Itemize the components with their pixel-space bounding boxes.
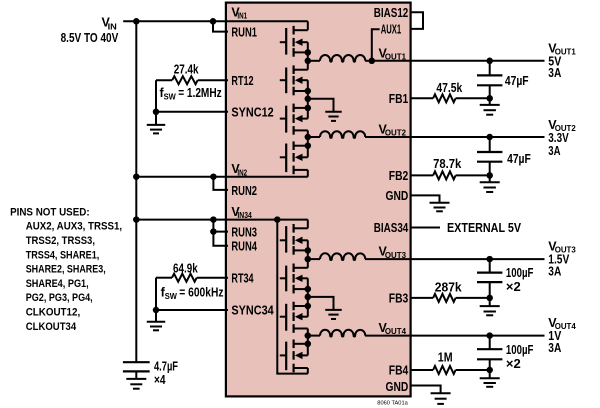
node FB2 gnd junction xyxy=(486,172,493,179)
label VOUT4 output xyxy=(548,316,576,331)
svg-text:= 600kHz: = 600kHz xyxy=(179,286,223,300)
wire FB2 xyxy=(410,174,489,176)
svg-text:RUN4: RUN4 xyxy=(231,240,257,254)
wire VIN2 internal xyxy=(228,176,308,178)
svg-text:AUX2, AUX3, TRSS1,: AUX2, AUX3, TRSS1, xyxy=(26,221,122,233)
wire VIN34 internal xyxy=(228,219,308,221)
wire VOUT1 pin xyxy=(372,60,411,62)
wire SW4 rail xyxy=(307,329,309,356)
resistor R RT12 27.4k leads xyxy=(156,79,228,81)
pin RUN2 label xyxy=(231,184,257,198)
svg-text:SHARE4, PG1,: SHARE4, PG1, xyxy=(26,278,89,290)
label 100uF ch4 xyxy=(506,343,534,357)
capacitor C1 47uF xyxy=(477,61,502,99)
svg-text:RUN2: RUN2 xyxy=(231,184,257,198)
wire GND12 xyxy=(410,195,439,202)
label x2 ch4 xyxy=(506,357,521,371)
wire VOUT4 output xyxy=(410,335,544,337)
pin RUN3 label xyxy=(231,226,257,240)
wire VIN vertical rail xyxy=(135,21,137,362)
wire FB3 xyxy=(410,297,489,299)
node VOUT1-AUX1 junction xyxy=(369,58,376,65)
label VOUT2 output xyxy=(548,118,576,133)
pin SYNC12 label xyxy=(231,105,273,119)
node RUN2 feed junction xyxy=(210,173,217,180)
svg-text:CLKOUT34: CLKOUT34 xyxy=(26,321,77,333)
transistor Q8 ch4 top switch xyxy=(280,340,308,373)
label 8060 TA01a xyxy=(377,400,408,406)
label 100uF ch3 xyxy=(506,266,534,280)
svg-text:TRSS2, TRSS3,: TRSS2, TRSS3, xyxy=(26,235,95,247)
node Q8 source junction xyxy=(305,341,312,348)
pin AUX1 label xyxy=(381,22,402,36)
node internal gnd branch 34 xyxy=(305,294,312,301)
inductor L1 xyxy=(308,55,372,62)
node SW2 inductor junction xyxy=(305,134,312,141)
svg-text:PG2, PG3, PG4,: PG2, PG3, PG4, xyxy=(26,292,93,304)
pin GND34 label xyxy=(386,380,409,394)
svg-text:3A: 3A xyxy=(548,66,561,80)
ground input cap xyxy=(126,379,146,389)
ground SYNC12 xyxy=(147,112,166,134)
label VOUT1 output xyxy=(548,41,576,56)
node Q7 source junction xyxy=(305,303,312,310)
wire RUN4 feed xyxy=(213,232,228,246)
wire BIAS34 xyxy=(410,227,440,229)
transistor Q4 ch2 top switch xyxy=(280,141,308,174)
svg-text:8060 TA01a: 8060 TA01a xyxy=(377,400,408,406)
wire SW2 rail xyxy=(307,130,309,157)
pin VOUT3 label xyxy=(379,245,407,260)
resistor R4 1M body xyxy=(433,366,456,374)
ground GND12 xyxy=(430,203,450,212)
capacitor C4 100uF x2 xyxy=(477,336,502,370)
transistor Q3 ch2 bottom switch xyxy=(280,104,308,135)
inductor L2 xyxy=(308,131,411,138)
wire BIAS12 to AUX1 loop xyxy=(410,12,423,29)
node internal gnd branch 12 xyxy=(305,96,312,103)
node VOUT1 cap junction xyxy=(486,58,493,65)
wire VOUT1 output xyxy=(410,60,544,62)
node FB1 gnd junction xyxy=(486,95,493,102)
wire AUX1 riser xyxy=(372,29,380,61)
pin VIN34 label xyxy=(231,205,252,220)
IC module U1 LTM8060 body xyxy=(226,3,411,397)
label 3A ch1 xyxy=(548,66,561,80)
wire FET Q1 drain stub xyxy=(307,21,309,30)
node Q5 source junction xyxy=(305,247,312,254)
svg-text:100µF: 100µF xyxy=(506,343,534,357)
node Q4 source junction xyxy=(305,142,312,149)
wire FB4 xyxy=(410,369,489,371)
svg-text:47.5k: 47.5k xyxy=(436,81,462,95)
pin VOUT2 label xyxy=(379,123,407,138)
capacitor C2 47uF xyxy=(477,137,502,175)
label 3A ch4 xyxy=(548,341,561,355)
label 1V xyxy=(548,329,562,343)
node RUN1 feed junction xyxy=(210,18,217,25)
wire Q8 drain to loop xyxy=(307,368,309,374)
label 47uF ch2 xyxy=(507,152,531,166)
wire GND34 xyxy=(410,386,440,394)
pin FB4 label xyxy=(389,364,409,378)
label 3.3V xyxy=(548,131,569,145)
wire RUN2 feed xyxy=(213,177,228,190)
ground internal 34 xyxy=(308,297,342,319)
pin FB1 label xyxy=(389,92,409,106)
pin BIAS34 label xyxy=(374,221,409,235)
label PINS NOT USED list xyxy=(10,206,122,333)
ground SYNC34 xyxy=(147,310,166,330)
wire gnd rail ch1-ch2 xyxy=(307,80,309,118)
svg-text:IN1: IN1 xyxy=(237,10,247,20)
wire VIN2 feed xyxy=(136,176,228,178)
svg-text:×2: ×2 xyxy=(506,357,521,371)
svg-text:RUN3: RUN3 xyxy=(231,226,257,240)
label x4 xyxy=(154,373,166,387)
pin FB2 label xyxy=(389,169,409,183)
pin VOUT4 label xyxy=(379,321,407,336)
ground VOUT3 cap xyxy=(480,298,500,315)
svg-text:SW: SW xyxy=(165,291,178,301)
svg-text:GND: GND xyxy=(386,189,409,203)
svg-text:8.5V TO 40V: 8.5V TO 40V xyxy=(61,31,119,45)
wire RUN3 feed xyxy=(213,220,228,232)
resistor R1 47.5k body xyxy=(433,94,456,102)
resistor R RT34 64.9k leads xyxy=(156,277,228,279)
transistor Q1 ch1 top switch xyxy=(280,26,308,57)
svg-text:PINS NOT USED:: PINS NOT USED: xyxy=(10,206,90,218)
label fSW = 600kHz xyxy=(161,286,224,302)
svg-text:47µF: 47µF xyxy=(507,152,531,166)
svg-text:64.9k: 64.9k xyxy=(173,262,198,276)
node SW4 inductor junction xyxy=(305,332,312,339)
ground VOUT2 cap xyxy=(480,175,500,192)
label 64.9k xyxy=(173,262,198,276)
node SYNC34 junction xyxy=(153,307,160,314)
transistor Q7 ch4 bottom switch xyxy=(280,302,308,333)
node Q2 source junction xyxy=(305,88,312,95)
svg-text:3A: 3A xyxy=(548,341,561,355)
pin GND12 label xyxy=(386,189,409,203)
pin VIN1 label xyxy=(231,5,247,20)
svg-text:3A: 3A xyxy=(548,264,561,278)
pin SYNC34 label xyxy=(231,304,273,318)
wire SW3 rail xyxy=(307,240,309,267)
resistor R2 78.7k body xyxy=(433,171,456,179)
node FB4 gnd junction xyxy=(486,367,493,374)
pin RT12 label xyxy=(231,74,253,88)
label x2 ch3 xyxy=(506,280,521,294)
svg-text:SYNC34: SYNC34 xyxy=(231,304,273,318)
label 1M xyxy=(438,350,453,364)
node VIN label xyxy=(102,16,117,32)
node VOUT3 cap junction xyxy=(486,256,493,263)
label 5V xyxy=(548,54,562,68)
wire SW1 rail xyxy=(307,42,309,69)
wire SYNC34 xyxy=(156,309,228,311)
wire gnd rail ch3-ch4 xyxy=(307,278,309,316)
wire FET Q5 drain stub xyxy=(307,220,309,229)
node FB3 gnd junction xyxy=(486,295,493,302)
svg-text:IN: IN xyxy=(108,21,117,31)
svg-text:CLKOUT12,: CLKOUT12, xyxy=(26,307,80,319)
svg-text:FB1: FB1 xyxy=(389,92,409,106)
svg-text:RT12: RT12 xyxy=(231,74,253,88)
label VOUT3 output xyxy=(548,240,576,255)
svg-text:×4: ×4 xyxy=(154,373,166,387)
label 4.7uF xyxy=(154,359,178,373)
wire VIN input xyxy=(123,20,228,22)
wire VOUT3 output xyxy=(410,258,544,260)
node VIN34 rail junction xyxy=(133,216,140,223)
ground VOUT1 cap xyxy=(480,98,500,114)
label 3A ch2 xyxy=(548,144,560,158)
capacitor C3 100uF x2 xyxy=(477,259,502,298)
wire VIN34 feed xyxy=(136,219,228,221)
pin VOUT1 label xyxy=(379,46,407,61)
svg-text:SHARE2, SHARE3,: SHARE2, SHARE3, xyxy=(26,264,106,276)
node VOUT2 cap junction xyxy=(486,134,493,141)
svg-text:287k: 287k xyxy=(435,281,462,295)
svg-text:RUN1: RUN1 xyxy=(231,26,257,40)
node RUN3 feed junction xyxy=(210,216,217,223)
wire Q4 drain to VIN2 xyxy=(307,170,309,177)
svg-text:100µF: 100µF xyxy=(506,266,534,280)
svg-text:BIAS34: BIAS34 xyxy=(374,221,409,235)
svg-text:1M: 1M xyxy=(438,350,453,364)
node VIN2 rail junction xyxy=(133,173,140,180)
svg-text:FB2: FB2 xyxy=(389,169,409,183)
label 3A ch3 xyxy=(548,264,561,278)
inductor L3 xyxy=(308,253,411,260)
node SW3 inductor junction xyxy=(305,256,312,263)
pin BIAS12 label xyxy=(374,6,409,20)
label 27.4k xyxy=(174,63,199,77)
svg-text:= 1.2MHz: = 1.2MHz xyxy=(178,86,222,100)
svg-text:4.7µF: 4.7µF xyxy=(154,359,178,373)
ground internal 12 xyxy=(308,99,342,121)
transistor Q2 ch1 bottom switch xyxy=(280,65,308,95)
svg-text:BIAS12: BIAS12 xyxy=(374,6,409,20)
resistor R3 287k body xyxy=(433,294,456,302)
svg-text:FB4: FB4 xyxy=(389,364,409,378)
label 47.5k xyxy=(436,81,462,95)
label 1.5V xyxy=(548,253,570,267)
pin RUN1 label xyxy=(231,26,257,40)
svg-text:47µF: 47µF xyxy=(505,74,529,88)
svg-text:GND: GND xyxy=(386,380,409,394)
inductor L4 xyxy=(308,330,411,337)
node VOUT4 cap junction xyxy=(486,332,493,339)
pin VIN2 label xyxy=(231,162,247,177)
resistor R RT34 64.9k body xyxy=(172,274,197,282)
wire VIN34 left loop xyxy=(277,220,308,374)
wire VOUT2 output xyxy=(410,136,544,138)
node Q1 source junction xyxy=(305,49,312,56)
capacitor C 4.7uF x4 input xyxy=(123,362,150,379)
node SYNC12 junction xyxy=(153,109,160,116)
pin RUN4 label xyxy=(231,240,257,254)
svg-text:78.7k: 78.7k xyxy=(433,157,461,171)
pin FB3 label xyxy=(389,292,409,306)
node RUN4 feed junction xyxy=(210,228,217,235)
wire RT34 to SYNC34 xyxy=(155,278,157,310)
svg-text:TRSS4, SHARE1,: TRSS4, SHARE1, xyxy=(26,249,100,261)
svg-text:3.3V: 3.3V xyxy=(548,131,569,145)
svg-text:SW: SW xyxy=(164,92,177,102)
svg-text:FB3: FB3 xyxy=(389,292,409,306)
svg-text:RT34: RT34 xyxy=(231,271,253,285)
label fSW = 1.2MHz xyxy=(160,86,222,102)
node Q6 source junction xyxy=(305,286,312,293)
label 8.5V TO 40V xyxy=(61,31,119,45)
transistor Q6 ch3 bottom switch xyxy=(280,264,308,294)
wire SYNC12 xyxy=(156,111,228,113)
svg-text:×2: ×2 xyxy=(506,280,521,294)
label 47uF ch1 xyxy=(505,74,529,88)
node Q3 source junction xyxy=(305,105,312,112)
wire RUN1 feed xyxy=(213,21,228,31)
ground VOUT4 cap xyxy=(480,370,500,387)
svg-text:AUX1: AUX1 xyxy=(381,22,402,36)
label 78.7k xyxy=(433,157,461,171)
transistor Q5 ch3 top switch xyxy=(280,224,308,255)
svg-text:EXTERNAL 5V: EXTERNAL 5V xyxy=(447,221,522,235)
node SW1 inductor junction xyxy=(305,58,312,65)
svg-text:27.4k: 27.4k xyxy=(174,63,199,77)
svg-text:SYNC12: SYNC12 xyxy=(231,105,273,119)
wire VIN1 internal xyxy=(228,20,308,22)
resistor R RT12 27.4k body xyxy=(172,76,198,84)
label 287k xyxy=(435,281,462,295)
pin RT34 label xyxy=(231,271,253,285)
label EXTERNAL 5V xyxy=(447,221,522,235)
svg-text:3A: 3A xyxy=(548,144,560,158)
wire FB1 xyxy=(410,97,489,99)
ground GND34 xyxy=(431,393,451,404)
node VIN34 loop junction xyxy=(274,216,281,223)
wire RT12 to SYNC12 xyxy=(155,80,157,112)
node VIN rail junction xyxy=(133,18,140,25)
